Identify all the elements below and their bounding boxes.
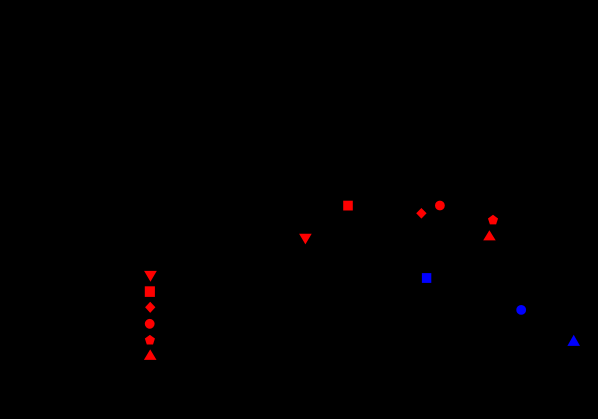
data point circle (red) xyxy=(435,201,445,211)
data point triangle-up (red) xyxy=(483,230,496,240)
legend marker triangle-up (red) xyxy=(144,349,157,360)
legend marker square (red) xyxy=(145,286,155,297)
data point diamond (red) xyxy=(416,208,426,219)
data point triangle-up (blue) xyxy=(567,335,580,346)
data point square (red) xyxy=(343,201,353,211)
legend marker triangle-down (red) xyxy=(144,271,157,282)
data point pentagon (red) xyxy=(488,215,498,225)
data point triangle-down (red) xyxy=(299,234,312,245)
data point circle (blue) xyxy=(516,305,526,315)
legend marker pentagon (red) xyxy=(145,335,155,345)
legend marker circle (red) xyxy=(145,319,155,329)
legend marker diamond (red) xyxy=(145,302,155,313)
data point square (blue) xyxy=(422,273,431,283)
